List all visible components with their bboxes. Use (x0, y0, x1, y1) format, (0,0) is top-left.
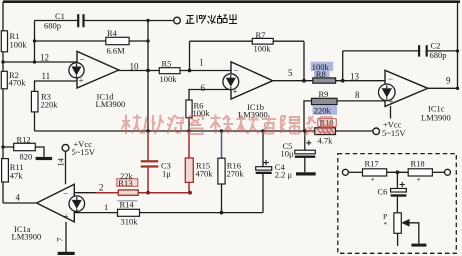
svg-text:R12: R12 (17, 134, 31, 144)
power terminal +Vcc right (373, 120, 406, 138)
resistor R10 highlighted (315, 118, 336, 146)
svg-text:LM3900: LM3900 (96, 99, 126, 109)
resistor R6 (186, 100, 210, 118)
wire IC1c output pin9 (428, 87, 458, 89)
power terminal +Vcc left (62, 139, 96, 157)
wire R16 bottom (221, 184, 223, 213)
svg-text:2.2 μ: 2.2 μ (275, 170, 293, 180)
resistor R18 (408, 159, 432, 186)
wire IC1a output pin4 (3, 202, 37, 204)
svg-text:R4: R4 (107, 28, 118, 38)
svg-text:100k: 100k (254, 44, 272, 54)
svg-text:C6: C6 (378, 187, 388, 197)
wire C4 bottom to R14 net (262, 174, 264, 213)
wire IC1b output to IC1c minus input (273, 80, 386, 82)
resistor R14 (118, 200, 140, 227)
ground for potentiometer wiper (411, 244, 426, 247)
svg-text:13: 13 (350, 72, 360, 82)
svg-text:C1: C1 (55, 11, 65, 21)
capacitor C5 (281, 140, 316, 158)
wire IC1a plus input R14 net (74, 212, 263, 214)
wire top feedback rail (3, 0, 460, 3)
wire IC1a minus input pin2 (74, 192, 106, 194)
svg-text:11: 11 (42, 71, 51, 81)
svg-text:1μ: 1μ (162, 168, 171, 178)
svg-text:LM3900: LM3900 (12, 232, 42, 242)
resistor R8 highlighted (311, 62, 336, 84)
wire R13 to R15 bottom highlighted (139, 192, 191, 194)
resistor R11 (2, 159, 24, 182)
output terminal node 正弦波输出 (174, 14, 237, 24)
terminal left of subcircuit (342, 169, 348, 175)
svg-text:*: * (417, 177, 421, 185)
resistor R16 (218, 131, 244, 184)
svg-text:LM3900: LM3900 (421, 113, 451, 123)
wire C1 branch (35, 20, 174, 22)
capacitor C4 (256, 160, 293, 180)
terminal right of subcircuit (445, 169, 451, 175)
junction dot C6 tap (396, 170, 400, 174)
svg-text:*: * (384, 221, 388, 229)
capacitor C6 (378, 182, 407, 197)
wire left rail vertical (2, 2, 4, 203)
wire R4 branch (35, 40, 149, 42)
svg-text:R17: R17 (365, 159, 379, 169)
wire R7 feedback loop (190, 41, 305, 80)
svg-text:R13: R13 (118, 178, 132, 188)
wire C4 branch (262, 131, 264, 167)
wire vertical x148 pin10 to rail (147, 21, 149, 132)
svg-text:R5: R5 (162, 59, 172, 69)
wire R18 to terminal (432, 171, 444, 173)
wire R12 branch (3, 147, 44, 157)
svg-text:47k: 47k (10, 171, 23, 181)
wire terminal to R17 (348, 171, 362, 173)
wire pin11 and R3 branch (35, 81, 78, 131)
wire node13 vertical to C2 (343, 51, 458, 81)
wire vertical x34.5 C1/R4 branch (34, 21, 36, 63)
svg-text:680p: 680p (44, 21, 61, 31)
junction dot C3 bottom (146, 191, 150, 195)
svg-text:*: * (371, 177, 375, 185)
resistor R4 (106, 28, 129, 55)
svg-text:5~15V: 5~15V (382, 128, 406, 138)
wire IC1a power pin14 (65, 151, 67, 184)
svg-text:220k: 220k (41, 100, 59, 110)
resistor R9 highlighted value (312, 89, 338, 116)
wire C5 to ground (304, 158, 306, 173)
wire IC1d output to IC1b input (119, 70, 232, 72)
resistor R17 (363, 159, 387, 186)
wire mid bias rail (35, 130, 373, 132)
svg-text:270k: 270k (227, 168, 245, 178)
svg-text:1: 1 (199, 58, 204, 68)
svg-text:310k: 310k (121, 217, 139, 227)
svg-text:14: 14 (56, 157, 66, 166)
ground for IC1a pin7 (58, 252, 75, 255)
svg-text:8: 8 (355, 90, 360, 100)
svg-text:2: 2 (99, 183, 104, 193)
svg-text:7: 7 (55, 238, 65, 242)
wire pin2 to R13 highlighted segment (96, 192, 118, 194)
resistor R12 (14, 134, 36, 161)
svg-text:5~15V: 5~15V (72, 147, 96, 157)
watermark 杭州将睿科技有限公司 (122, 115, 332, 136)
wire IC1a ground pin7 (65, 222, 67, 252)
op-amp IC1b (223, 62, 273, 120)
capacitor C2 (418, 41, 447, 61)
resistor R2 (1, 70, 26, 89)
svg-text:470k: 470k (9, 78, 27, 88)
capacitor C1 (44, 11, 85, 31)
svg-text:4.7k: 4.7k (318, 136, 334, 146)
capacitor C3 highlighted (141, 131, 172, 193)
svg-text:10μ: 10μ (281, 149, 295, 159)
resistor R5 (159, 59, 180, 85)
svg-text:P: P (383, 212, 387, 221)
wire IC1c power stub (390, 106, 392, 119)
svg-text:1: 1 (104, 202, 108, 212)
resistor R3 (31, 91, 58, 112)
dashed subcircuit box (338, 154, 457, 254)
svg-text:−: − (63, 189, 68, 199)
wire C5 branch (304, 131, 306, 150)
ground for R12 (36, 157, 53, 160)
wire pin12 horizontal (3, 61, 78, 63)
svg-text:820: 820 (20, 152, 33, 162)
svg-text:100k: 100k (10, 40, 28, 50)
svg-text:680p: 680p (430, 50, 447, 60)
svg-text:6.6M: 6.6M (107, 46, 126, 56)
ground for C5 (296, 172, 316, 175)
svg-text:R7: R7 (256, 30, 266, 40)
svg-text:4: 4 (16, 193, 21, 203)
wire C6 to potentiometer (396, 197, 398, 213)
svg-text:C2: C2 (431, 41, 441, 51)
potentiometer P (383, 212, 419, 246)
svg-text:470k: 470k (196, 168, 214, 178)
wire R9 branch to IC1c plus input (304, 101, 385, 131)
svg-text:−: − (388, 74, 393, 84)
resistor R7 (252, 30, 273, 54)
svg-text:10: 10 (130, 62, 140, 72)
svg-text:6: 6 (201, 83, 206, 93)
op-amp IC1a (12, 184, 85, 241)
junction dot R15 bottom (188, 191, 192, 195)
svg-text:220k: 220k (314, 106, 332, 116)
wire right vertical from top rail to pin 9 (457, 2, 459, 89)
resistor R1 (1, 31, 27, 52)
svg-text:R18: R18 (411, 159, 425, 169)
wire pin6 R6 branch (189, 90, 231, 132)
resistor R15 highlighted (185, 131, 213, 193)
wire R17 to R18 (387, 171, 409, 173)
op-amp IC1d (69, 51, 125, 109)
resistor R13 highlighted (117, 171, 138, 195)
svg-text:+: + (64, 212, 69, 222)
svg-text:9: 9 (446, 76, 451, 86)
svg-text:5: 5 (288, 68, 293, 78)
svg-text:R9: R9 (319, 89, 329, 99)
wire C6 vertical (396, 172, 398, 188)
svg-text:12: 12 (40, 53, 49, 63)
svg-text:100k: 100k (160, 74, 178, 84)
op-amp IC1c (379, 70, 451, 122)
